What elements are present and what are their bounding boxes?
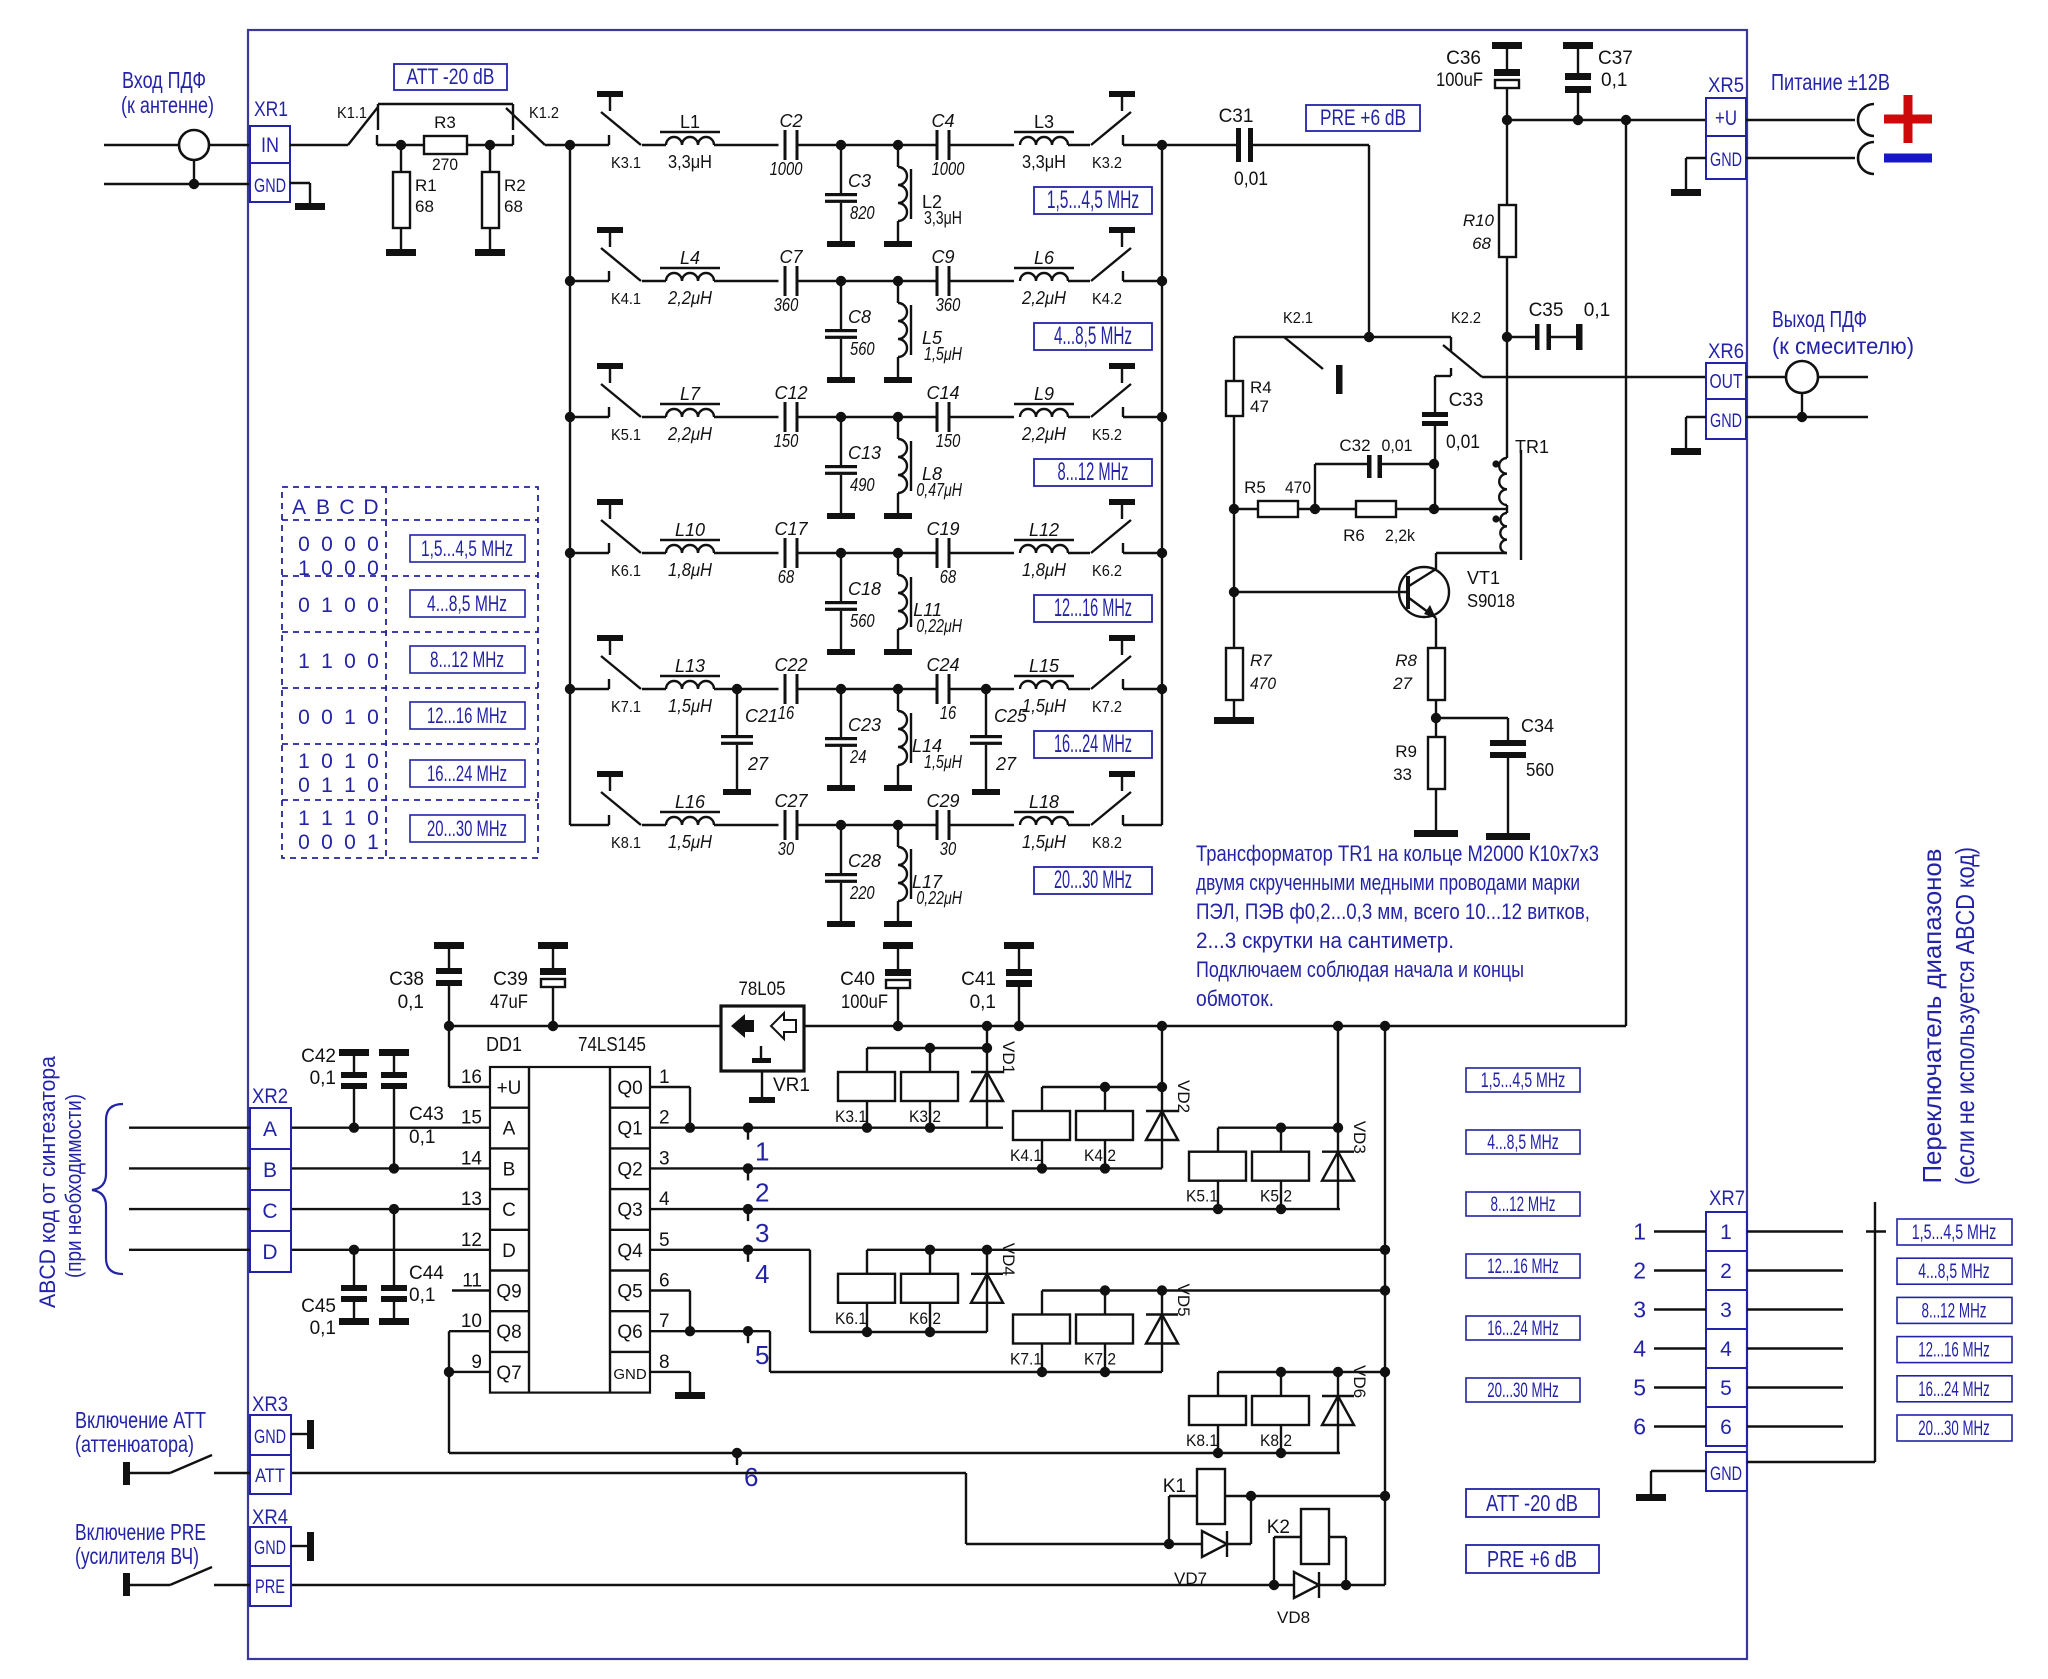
capacitor C35	[1507, 300, 1610, 350]
label band mid 12...16 MHz	[1466, 1254, 1580, 1278]
svg-text:0: 0	[367, 750, 379, 773]
svg-text:K4.2: K4.2	[1092, 291, 1122, 308]
svg-text:1: 1	[321, 650, 333, 673]
wire ATT control	[291, 1473, 1169, 1544]
svg-text:(к смесителю): (к смесителю)	[1772, 333, 1914, 359]
inductor L17	[898, 825, 963, 921]
svg-text:A: A	[263, 1118, 277, 1141]
wire PRE control	[291, 1584, 1385, 1586]
junction R1 top	[396, 140, 406, 150]
wire Q4 to K6	[650, 1250, 987, 1332]
relay contact K3.1	[570, 91, 641, 172]
junction left bus	[565, 548, 575, 558]
svg-text:3,3μH: 3,3μH	[1022, 152, 1066, 172]
svg-text:3: 3	[659, 1148, 670, 1169]
junction left bus	[565, 412, 575, 422]
svg-text:IN: IN	[261, 134, 279, 157]
wire K2 row	[1234, 336, 1451, 338]
svg-text:PRE: PRE	[255, 1577, 285, 1598]
svg-text:C: C	[339, 496, 354, 519]
junction left bus	[565, 276, 575, 286]
wire TR1 bottom	[1436, 552, 1507, 554]
wire pad left	[377, 144, 401, 146]
svg-text:DD1: DD1	[486, 1034, 522, 1056]
svg-text:Питание ±12В: Питание ±12В	[1771, 69, 1890, 95]
wire	[799, 416, 842, 418]
svg-text:K8.1: K8.1	[611, 835, 641, 852]
svg-text:GND: GND	[254, 176, 286, 197]
junction C44	[389, 1204, 399, 1214]
svg-text:0,22μH: 0,22μH	[916, 888, 962, 908]
junction C37	[1573, 115, 1583, 125]
ground C18	[827, 649, 855, 655]
svg-text:C22: C22	[774, 655, 807, 675]
inductor L14	[898, 689, 963, 785]
inductor L10	[642, 520, 779, 580]
svg-text:4...8,5 MHz: 4...8,5 MHz	[1487, 1131, 1559, 1154]
svg-text:GND: GND	[613, 1366, 647, 1383]
svg-text:1: 1	[344, 807, 356, 830]
ground XR1	[295, 203, 325, 210]
junction R6 right	[1429, 504, 1439, 514]
junction R2 top	[485, 140, 495, 150]
svg-text:150: 150	[936, 431, 961, 451]
svg-text:L10: L10	[675, 520, 705, 540]
svg-text:C21: C21	[745, 706, 778, 726]
label power	[1771, 69, 1890, 95]
capacitor C34	[1436, 716, 1554, 833]
svg-text:20...30 MHz: 20...30 MHz	[1918, 1417, 1990, 1440]
svg-text:5: 5	[659, 1230, 670, 1251]
wire circle to XR1	[209, 144, 250, 146]
label input	[121, 67, 214, 118]
wire Q0	[650, 1087, 690, 1128]
svg-text:2: 2	[1720, 1260, 1732, 1283]
capacitor C24	[926, 655, 959, 723]
svg-text:C8: C8	[848, 307, 871, 327]
label XR7 pin 2	[1633, 1258, 1646, 1284]
svg-text:K1: K1	[1163, 1476, 1186, 1497]
svg-text:VD6: VD6	[1350, 1365, 1369, 1398]
inductor L16	[642, 792, 779, 852]
ground L5	[884, 377, 912, 383]
svg-text:XR4: XR4	[252, 1506, 288, 1529]
wire	[841, 824, 898, 826]
svg-text:Q6: Q6	[617, 1322, 642, 1343]
ground C8	[827, 377, 855, 383]
wire	[898, 280, 936, 282]
svg-text:K7.1: K7.1	[611, 699, 641, 716]
junction left bus	[565, 684, 575, 694]
svg-text:L15: L15	[1029, 656, 1060, 676]
wire A pin	[291, 1126, 490, 1128]
junction node	[893, 276, 903, 286]
svg-text:K5.2: K5.2	[1260, 1187, 1292, 1206]
label band mid 8...12 MHz	[1466, 1192, 1580, 1216]
svg-text:11: 11	[462, 1271, 482, 1292]
svg-text:1,5...4,5 MHz: 1,5...4,5 MHz	[1912, 1221, 1997, 1244]
wire +U rail	[1507, 119, 1706, 121]
wire XR7 gnd	[1651, 1471, 1706, 1494]
svg-text:K1.1: K1.1	[337, 105, 367, 122]
junction C39	[548, 1021, 558, 1031]
svg-text:0,47μH: 0,47μH	[916, 480, 962, 500]
ground L17	[884, 921, 912, 927]
label band mid 20...30 MHz	[1466, 1378, 1580, 1402]
capacitor C45	[301, 1250, 369, 1339]
wire GND out	[1746, 157, 1855, 159]
ground DD1	[675, 1392, 705, 1399]
wire	[799, 552, 842, 554]
resistor R5	[1234, 478, 1315, 517]
capacitor C4	[931, 111, 964, 179]
svg-text:K6.2: K6.2	[909, 1309, 941, 1328]
junction node	[836, 548, 846, 558]
relay coil K8 + diode VD6	[1186, 1365, 1390, 1458]
wire	[898, 144, 936, 146]
relay coil K4 + diode VD2	[1010, 1021, 1193, 1174]
svg-text:R1: R1	[415, 176, 437, 195]
wire	[898, 552, 936, 554]
wire	[951, 416, 1015, 418]
svg-text:0: 0	[367, 557, 379, 580]
svg-text:C23: C23	[848, 715, 881, 735]
wire	[951, 280, 1015, 282]
junction C36	[1502, 115, 1512, 125]
wire base	[1234, 591, 1406, 593]
capacitor C43	[379, 1049, 444, 1168]
svg-text:8...12 MHz: 8...12 MHz	[1491, 1193, 1556, 1216]
diode VD8	[1274, 1572, 1346, 1627]
junction right bus	[1157, 548, 1167, 558]
svg-text:L16: L16	[675, 792, 706, 812]
svg-text:Выход ПДФ: Выход ПДФ	[1772, 306, 1867, 332]
ground R9	[1414, 830, 1458, 837]
svg-text:C29: C29	[926, 791, 959, 811]
svg-text:3: 3	[1633, 1297, 1646, 1323]
svg-text:Q3: Q3	[617, 1200, 642, 1221]
svg-text:14: 14	[461, 1148, 483, 1169]
svg-text:VT1: VT1	[1467, 568, 1500, 588]
svg-text:1: 1	[321, 594, 333, 617]
ground C3	[827, 241, 855, 247]
junction node	[836, 276, 846, 286]
svg-text:560: 560	[1526, 760, 1554, 780]
svg-text:R9: R9	[1395, 742, 1417, 761]
label ATT switch	[75, 1407, 206, 1457]
junction +U branch	[1621, 115, 1631, 125]
svg-text:C9: C9	[931, 247, 954, 267]
svg-text:C3: C3	[848, 171, 871, 191]
wire +U out	[1746, 119, 1855, 121]
capacitor C37	[1563, 42, 1633, 120]
wire B pin	[291, 1167, 490, 1169]
ground L11	[884, 649, 912, 655]
wire Q9 stub	[452, 1289, 490, 1291]
svg-text:C43: C43	[409, 1104, 444, 1125]
table row3 codes	[298, 650, 379, 673]
svg-text:1,5μH: 1,5μH	[668, 832, 713, 852]
label band 1,5...4,5 MHz	[1034, 186, 1152, 214]
svg-text:68: 68	[504, 197, 523, 216]
svg-text:1: 1	[321, 774, 333, 797]
relay contact K8.2	[1091, 771, 1162, 852]
junction R5 node	[1229, 504, 1239, 514]
svg-text:1,5μH: 1,5μH	[1022, 696, 1067, 716]
junction C42	[349, 1123, 359, 1133]
svg-text:1: 1	[344, 774, 356, 797]
label XR7 pin 4	[1633, 1336, 1646, 1362]
junction C35	[1502, 332, 1512, 342]
svg-text:GND: GND	[254, 1538, 286, 1559]
svg-text:C2: C2	[779, 111, 802, 131]
inductor L8	[898, 417, 963, 513]
wire Q5	[650, 1291, 690, 1332]
relay contact K1.2	[506, 104, 559, 145]
junction C45	[349, 1245, 359, 1255]
svg-text:4...8,5 MHz: 4...8,5 MHz	[1054, 322, 1132, 350]
svg-text:L7: L7	[680, 384, 701, 404]
capacitor C8	[825, 281, 875, 377]
svg-text:C12: C12	[774, 383, 807, 403]
label band 8...12 MHz	[1034, 458, 1152, 486]
connector XR7	[1706, 1187, 1747, 1491]
svg-text:0: 0	[298, 774, 310, 797]
svg-text:L13: L13	[675, 656, 705, 676]
svg-text:0: 0	[344, 831, 356, 854]
svg-text:C: C	[502, 1200, 516, 1221]
svg-text:1: 1	[298, 807, 310, 830]
wire XR7 pin 2	[1654, 1269, 1706, 1271]
svg-text:Q4: Q4	[617, 1241, 643, 1262]
resistor R3	[401, 113, 490, 174]
label PRE +6 dB box	[1306, 105, 1420, 131]
svg-text:C17: C17	[774, 519, 808, 539]
resistor R8	[1392, 648, 1445, 700]
brace ABCD	[92, 1104, 123, 1274]
svg-text:VD1: VD1	[999, 1041, 1018, 1074]
svg-text:15: 15	[461, 1108, 482, 1129]
node 6	[732, 1448, 759, 1492]
wire R8 bottom	[1435, 700, 1437, 737]
wire R4 top	[1233, 337, 1235, 381]
svg-text:C4: C4	[931, 111, 954, 131]
svg-text:двумя скрученными медными пров: двумя скрученными медными проводами марк…	[1196, 870, 1580, 895]
wire GND pin	[650, 1372, 690, 1392]
connector socket -	[1858, 142, 1874, 174]
capacitor C25	[970, 684, 1028, 789]
svg-text:1000: 1000	[770, 159, 803, 179]
svg-text:C7: C7	[779, 247, 803, 267]
svg-text:16: 16	[778, 703, 795, 723]
junction node	[836, 412, 846, 422]
svg-text:K5.2: K5.2	[1092, 427, 1122, 444]
svg-text:ATT: ATT	[255, 1466, 285, 1487]
junction base node	[1229, 587, 1239, 597]
svg-text:4: 4	[755, 1259, 769, 1289]
svg-text:270: 270	[432, 155, 458, 174]
label XR7 pin 5	[1633, 1375, 1646, 1401]
svg-text:Включение PRE: Включение PRE	[75, 1519, 206, 1545]
svg-text:C14: C14	[926, 383, 959, 403]
wire Q1 to K3	[650, 1126, 1003, 1128]
svg-text:K4.1: K4.1	[1010, 1146, 1042, 1165]
wire XR7 pin 6	[1654, 1425, 1706, 1427]
wire left bus	[569, 417, 571, 553]
svg-text:C18: C18	[848, 579, 881, 599]
svg-text:27: 27	[747, 754, 769, 774]
note transformer TR1	[1196, 841, 1599, 1011]
table row6 band	[410, 815, 525, 842]
junction input gnd	[189, 179, 199, 189]
svg-text:16: 16	[461, 1067, 482, 1088]
relay contact K4.1	[570, 227, 641, 308]
switch ATT	[123, 1455, 250, 1485]
capacitor C42	[301, 1046, 369, 1128]
svg-text:VD3: VD3	[1350, 1121, 1369, 1154]
svg-text:0: 0	[344, 650, 356, 673]
connector XR5	[1706, 74, 1746, 179]
wire XR2 C	[129, 1208, 250, 1210]
svg-text:1,8μH: 1,8μH	[668, 560, 713, 580]
svg-text:K7.2: K7.2	[1084, 1350, 1116, 1369]
connector XR2	[250, 1085, 291, 1272]
inductor L4	[642, 248, 779, 308]
svg-text:GND: GND	[1710, 411, 1742, 432]
svg-text:VD5: VD5	[1174, 1284, 1193, 1317]
capacitor C40	[840, 942, 913, 1026]
svg-text:L9: L9	[1034, 384, 1054, 404]
svg-text:6: 6	[744, 1462, 758, 1492]
svg-text:2: 2	[1633, 1258, 1646, 1284]
svg-text:1,8μH: 1,8μH	[1022, 560, 1067, 580]
label PRE switch	[75, 1519, 206, 1569]
resistor R7	[1226, 509, 1276, 717]
svg-text:0,1: 0,1	[310, 1318, 336, 1339]
capacitor C9	[931, 247, 960, 315]
svg-text:K4.2: K4.2	[1084, 1146, 1116, 1165]
wire right bus	[1161, 145, 1163, 281]
plus symbol	[1884, 95, 1932, 143]
relay contact K5.2	[1091, 363, 1162, 444]
svg-text:0,1: 0,1	[1584, 300, 1610, 321]
svg-text:L18: L18	[1029, 792, 1059, 812]
svg-text:6: 6	[659, 1271, 670, 1292]
svg-text:0,22μH: 0,22μH	[916, 616, 962, 636]
svg-text:1000: 1000	[932, 159, 965, 179]
svg-text:K8.2: K8.2	[1260, 1431, 1292, 1450]
table ABCD codes	[282, 487, 538, 858]
svg-text:3: 3	[755, 1218, 769, 1248]
label band right 16...24 MHz	[1897, 1376, 2012, 1402]
wire XR7 pin 6 right	[1747, 1425, 1843, 1427]
ground C25	[972, 789, 1000, 795]
wire XR6 gnd	[1746, 416, 1868, 418]
inductor L13	[642, 656, 779, 716]
svg-text:1,5μH: 1,5μH	[668, 696, 713, 716]
svg-text:XR2: XR2	[252, 1085, 288, 1108]
label PRE +6 dB bottom	[1466, 1545, 1599, 1573]
svg-text:0,1: 0,1	[398, 992, 424, 1013]
wire	[951, 824, 1015, 826]
diode VD7	[1164, 1496, 1251, 1588]
svg-text:VD4: VD4	[999, 1243, 1018, 1276]
inductor L12	[1014, 520, 1090, 580]
wire XR7 pin 4	[1654, 1347, 1706, 1349]
capacitor C31	[1162, 106, 1369, 190]
svg-text:0: 0	[367, 594, 379, 617]
svg-text:0,01: 0,01	[1446, 432, 1480, 453]
capacitor C33	[1422, 376, 1483, 509]
svg-text:47: 47	[1250, 397, 1269, 416]
node 4	[743, 1245, 770, 1289]
svg-text:Q5: Q5	[617, 1282, 642, 1303]
svg-text:VR1: VR1	[773, 1075, 810, 1096]
junction K2	[1364, 332, 1374, 342]
wire Q7 pin	[449, 1371, 490, 1373]
svg-text:0: 0	[321, 831, 333, 854]
relay coil K7 + diode VD5	[1010, 1284, 1390, 1378]
capacitor C17	[774, 519, 808, 587]
svg-text:R2: R2	[504, 176, 526, 195]
wire C31 down	[1368, 145, 1370, 337]
wire tap	[1434, 508, 1498, 510]
wire +U to lower rail	[1625, 120, 1627, 1026]
svg-text:13: 13	[461, 1189, 482, 1210]
svg-text:68: 68	[415, 197, 434, 216]
wire	[841, 280, 898, 282]
regulator VR1 78L05	[721, 979, 810, 1103]
svg-text:0,1: 0,1	[970, 992, 996, 1013]
label output	[1772, 306, 1914, 359]
svg-text:3,3μH: 3,3μH	[924, 208, 962, 228]
svg-text:S9018: S9018	[1467, 591, 1515, 611]
svg-text:20...30 MHz: 20...30 MHz	[1054, 866, 1132, 894]
capacitor C14	[926, 383, 960, 451]
label band 20...30 MHz	[1034, 866, 1152, 894]
svg-text:33: 33	[1393, 765, 1412, 784]
transistor VT1	[1399, 553, 1515, 648]
ground R2	[475, 249, 505, 256]
svg-text:L4: L4	[680, 248, 700, 268]
inductor L5	[898, 281, 963, 377]
inductor L9	[1014, 384, 1090, 444]
wire right bus	[1161, 553, 1163, 689]
capacitor C32	[1315, 436, 1434, 509]
inductor L2	[898, 145, 962, 241]
svg-text:Q0: Q0	[617, 1078, 642, 1099]
relay contact K6.2	[1091, 499, 1162, 580]
label band right 8...12 MHz	[1897, 1297, 2012, 1323]
output connector circle	[1786, 361, 1868, 417]
svg-text:2,2μH: 2,2μH	[667, 424, 713, 444]
capacitor C41	[961, 942, 1034, 1026]
junction right bus top	[1157, 140, 1167, 150]
svg-text:A: A	[503, 1119, 516, 1140]
ground XR5	[1671, 189, 1701, 196]
resistor R2	[482, 145, 526, 249]
svg-text:8...12 MHz: 8...12 MHz	[1058, 458, 1129, 486]
table row1 codes	[298, 533, 379, 580]
relay contact K2.1	[1283, 310, 1343, 394]
wire	[799, 824, 842, 826]
ground R1	[386, 249, 416, 256]
wire	[841, 144, 898, 146]
junction right bus	[1157, 276, 1167, 286]
wire +5/+12 rail	[449, 1025, 1626, 1027]
junction node	[893, 684, 903, 694]
svg-text:12: 12	[461, 1230, 482, 1251]
